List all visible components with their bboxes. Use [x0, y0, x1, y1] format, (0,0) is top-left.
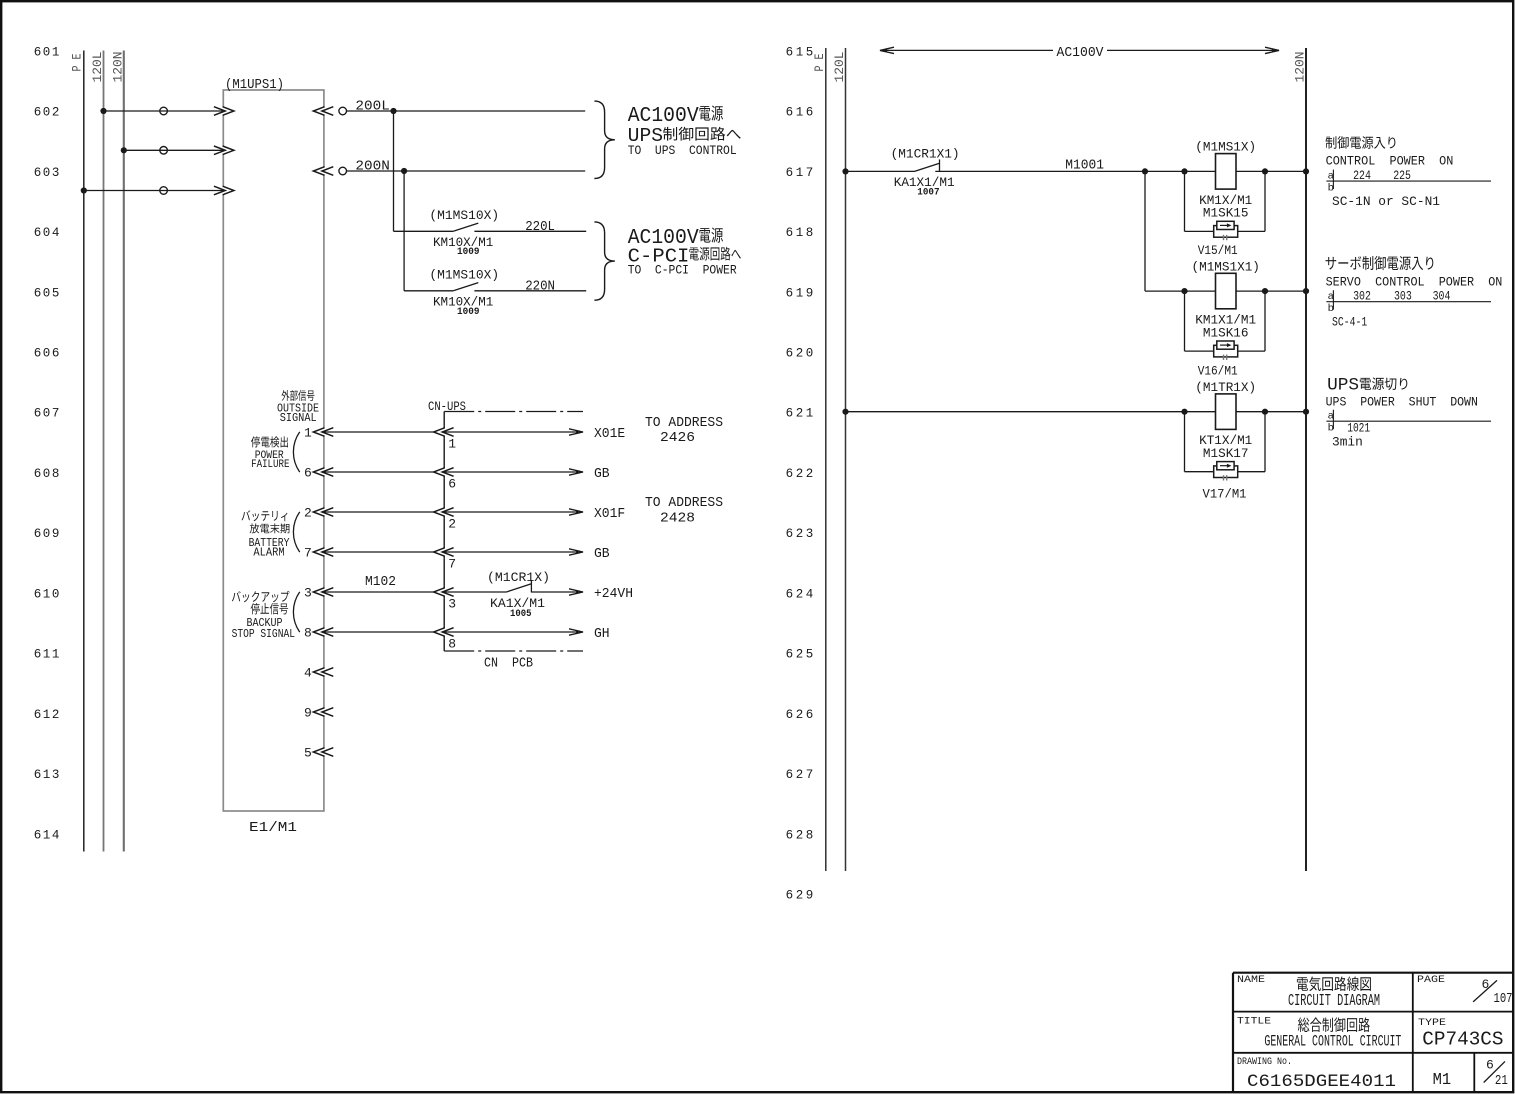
- svg-text:SERVO CONTROL POWER ON: SERVO CONTROL POWER ON: [1326, 275, 1503, 290]
- svg-text:1: 1: [448, 436, 456, 451]
- svg-text:303: 303: [1394, 289, 1412, 304]
- svg-text:7: 7: [304, 545, 312, 560]
- svg-text:617: 617: [786, 166, 816, 180]
- svg-text:TO ADDRESS: TO ADDRESS: [645, 496, 723, 511]
- svg-text:8: 8: [304, 625, 312, 640]
- svg-text:4: 4: [304, 665, 312, 680]
- svg-text:+24VH: +24VH: [594, 587, 633, 602]
- svg-text:624: 624: [786, 587, 816, 601]
- svg-text:120L: 120L: [90, 52, 105, 83]
- svg-text:2: 2: [304, 505, 312, 520]
- svg-text:X01F: X01F: [594, 507, 625, 522]
- svg-text:3: 3: [304, 585, 312, 600]
- svg-text:120N: 120N: [110, 52, 125, 83]
- svg-text:SC-1N or SC-N1: SC-1N or SC-N1: [1332, 194, 1440, 209]
- svg-text:627: 627: [786, 768, 816, 782]
- svg-text:FAILURE: FAILURE: [251, 459, 290, 471]
- svg-text:PAGE: PAGE: [1417, 974, 1445, 986]
- svg-text:626: 626: [786, 708, 816, 722]
- svg-text:225: 225: [1393, 168, 1411, 183]
- svg-text:612: 612: [34, 708, 61, 722]
- svg-text:(M1TR1X): (M1TR1X): [1195, 380, 1256, 395]
- svg-text:6: 6: [1482, 977, 1490, 992]
- svg-text:CIRCUIT DIAGRAM: CIRCUIT DIAGRAM: [1288, 991, 1380, 1010]
- svg-text:613: 613: [34, 768, 61, 782]
- svg-text:P E: P E: [70, 53, 85, 71]
- svg-text:NAME: NAME: [1237, 974, 1265, 986]
- svg-text:610: 610: [34, 587, 61, 601]
- svg-text:AC100V: AC100V: [1057, 46, 1105, 61]
- svg-text:609: 609: [34, 527, 61, 541]
- svg-text:(M1MS1X1): (M1MS1X1): [1192, 259, 1260, 274]
- svg-text:1007: 1007: [917, 188, 939, 199]
- svg-text:9: 9: [304, 705, 312, 720]
- svg-text:(M1UPS1): (M1UPS1): [225, 78, 284, 93]
- svg-text:200L: 200L: [355, 99, 389, 114]
- svg-text:(M1MS1X): (M1MS1X): [1195, 140, 1256, 155]
- svg-text:M1: M1: [1433, 1071, 1452, 1090]
- svg-text:DRAWING No.: DRAWING No.: [1237, 1056, 1292, 1068]
- svg-text:STOP SIGNAL: STOP SIGNAL: [232, 628, 295, 641]
- svg-text:TO UPS CONTROL: TO UPS CONTROL: [628, 143, 737, 158]
- svg-text:1009: 1009: [457, 307, 480, 318]
- svg-text:ALARM: ALARM: [253, 547, 284, 560]
- svg-text:CP743CS: CP743CS: [1422, 1029, 1503, 1051]
- svg-text:GB: GB: [594, 467, 610, 482]
- svg-text:7: 7: [448, 556, 456, 571]
- svg-text:CN-UPS: CN-UPS: [428, 399, 466, 414]
- svg-text:UPS: UPS: [1327, 375, 1359, 395]
- svg-text:1009: 1009: [457, 247, 480, 258]
- svg-text:M1001: M1001: [1065, 158, 1104, 173]
- svg-text:614: 614: [34, 828, 61, 842]
- svg-text:UPS POWER SHUT DOWN: UPS POWER SHUT DOWN: [1326, 394, 1478, 409]
- svg-text:620: 620: [786, 347, 816, 361]
- svg-text:6: 6: [448, 476, 456, 491]
- svg-text:6: 6: [1486, 1058, 1494, 1073]
- svg-text:X01E: X01E: [594, 427, 625, 442]
- svg-text:619: 619: [786, 286, 816, 300]
- svg-text:5: 5: [304, 745, 312, 760]
- svg-text:622: 622: [786, 467, 816, 481]
- svg-text:TO ADDRESS: TO ADDRESS: [645, 416, 723, 431]
- svg-text:V16/M1: V16/M1: [1198, 364, 1238, 379]
- svg-text:2426: 2426: [660, 431, 695, 446]
- svg-text:616: 616: [786, 106, 816, 120]
- svg-text:V15/M1: V15/M1: [1198, 243, 1238, 258]
- svg-text:602: 602: [34, 106, 61, 120]
- svg-text:(M1MS10X): (M1MS10X): [429, 208, 499, 223]
- svg-text:CN PCB: CN PCB: [484, 656, 533, 671]
- svg-text:3: 3: [448, 596, 456, 611]
- svg-text:302: 302: [1353, 289, 1371, 304]
- svg-text:605: 605: [34, 286, 61, 300]
- svg-text:2: 2: [448, 516, 456, 531]
- svg-text:625: 625: [786, 648, 816, 662]
- svg-text:P E: P E: [812, 53, 827, 71]
- svg-text:224: 224: [1353, 168, 1371, 183]
- svg-text:GENERAL CONTROL CIRCUIT: GENERAL CONTROL CIRCUIT: [1264, 1033, 1401, 1051]
- svg-text:304: 304: [1433, 289, 1451, 304]
- svg-text:623: 623: [786, 527, 816, 541]
- svg-text:611: 611: [34, 648, 61, 662]
- svg-text:M1SK15: M1SK15: [1203, 206, 1249, 221]
- svg-text:E1/M1: E1/M1: [249, 821, 297, 836]
- svg-text:107: 107: [1494, 992, 1513, 1007]
- svg-text:120N: 120N: [1293, 52, 1308, 83]
- svg-text:604: 604: [34, 226, 61, 240]
- svg-text:GH: GH: [594, 627, 610, 642]
- svg-text:607: 607: [34, 407, 61, 421]
- svg-text:8: 8: [448, 636, 456, 651]
- svg-text:608: 608: [34, 467, 61, 481]
- svg-text:6: 6: [304, 465, 312, 480]
- svg-text:629: 629: [786, 888, 816, 902]
- svg-text:SC-4-1: SC-4-1: [1332, 315, 1367, 330]
- svg-text:1005: 1005: [510, 609, 532, 620]
- svg-text:601: 601: [34, 45, 61, 59]
- svg-text:SIGNAL: SIGNAL: [280, 411, 317, 425]
- svg-text:618: 618: [786, 226, 816, 240]
- svg-text:M1SK16: M1SK16: [1203, 325, 1249, 340]
- svg-text:3min: 3min: [1332, 435, 1363, 450]
- svg-text:TO C-PCI POWER: TO C-PCI POWER: [628, 263, 737, 278]
- svg-text:M1SK17: M1SK17: [1203, 446, 1249, 461]
- svg-text:603: 603: [34, 166, 61, 180]
- svg-text:1021: 1021: [1347, 421, 1370, 436]
- svg-text:(M1CR1X): (M1CR1X): [487, 570, 550, 585]
- svg-text:220N: 220N: [525, 279, 555, 294]
- svg-text:M102: M102: [365, 575, 396, 590]
- svg-text:200N: 200N: [355, 159, 389, 174]
- svg-text:(M1MS10X): (M1MS10X): [429, 268, 499, 283]
- svg-text:V17/M1: V17/M1: [1203, 487, 1247, 502]
- svg-text:GB: GB: [594, 547, 610, 562]
- svg-text:C6165DGEE4011: C6165DGEE4011: [1247, 1072, 1396, 1092]
- svg-text:1: 1: [304, 425, 312, 440]
- svg-text:120L: 120L: [832, 52, 847, 83]
- svg-text:606: 606: [34, 347, 61, 361]
- svg-text:220L: 220L: [525, 220, 555, 235]
- svg-text:TITLE: TITLE: [1237, 1015, 1271, 1027]
- svg-text:628: 628: [786, 828, 816, 842]
- svg-text:2428: 2428: [660, 512, 695, 527]
- svg-text:621: 621: [786, 407, 816, 421]
- svg-text:TYPE: TYPE: [1418, 1017, 1446, 1029]
- svg-text:CONTROL POWER ON: CONTROL POWER ON: [1326, 153, 1454, 168]
- svg-text:21: 21: [1495, 1074, 1508, 1089]
- svg-text:(M1CR1X1): (M1CR1X1): [891, 147, 960, 162]
